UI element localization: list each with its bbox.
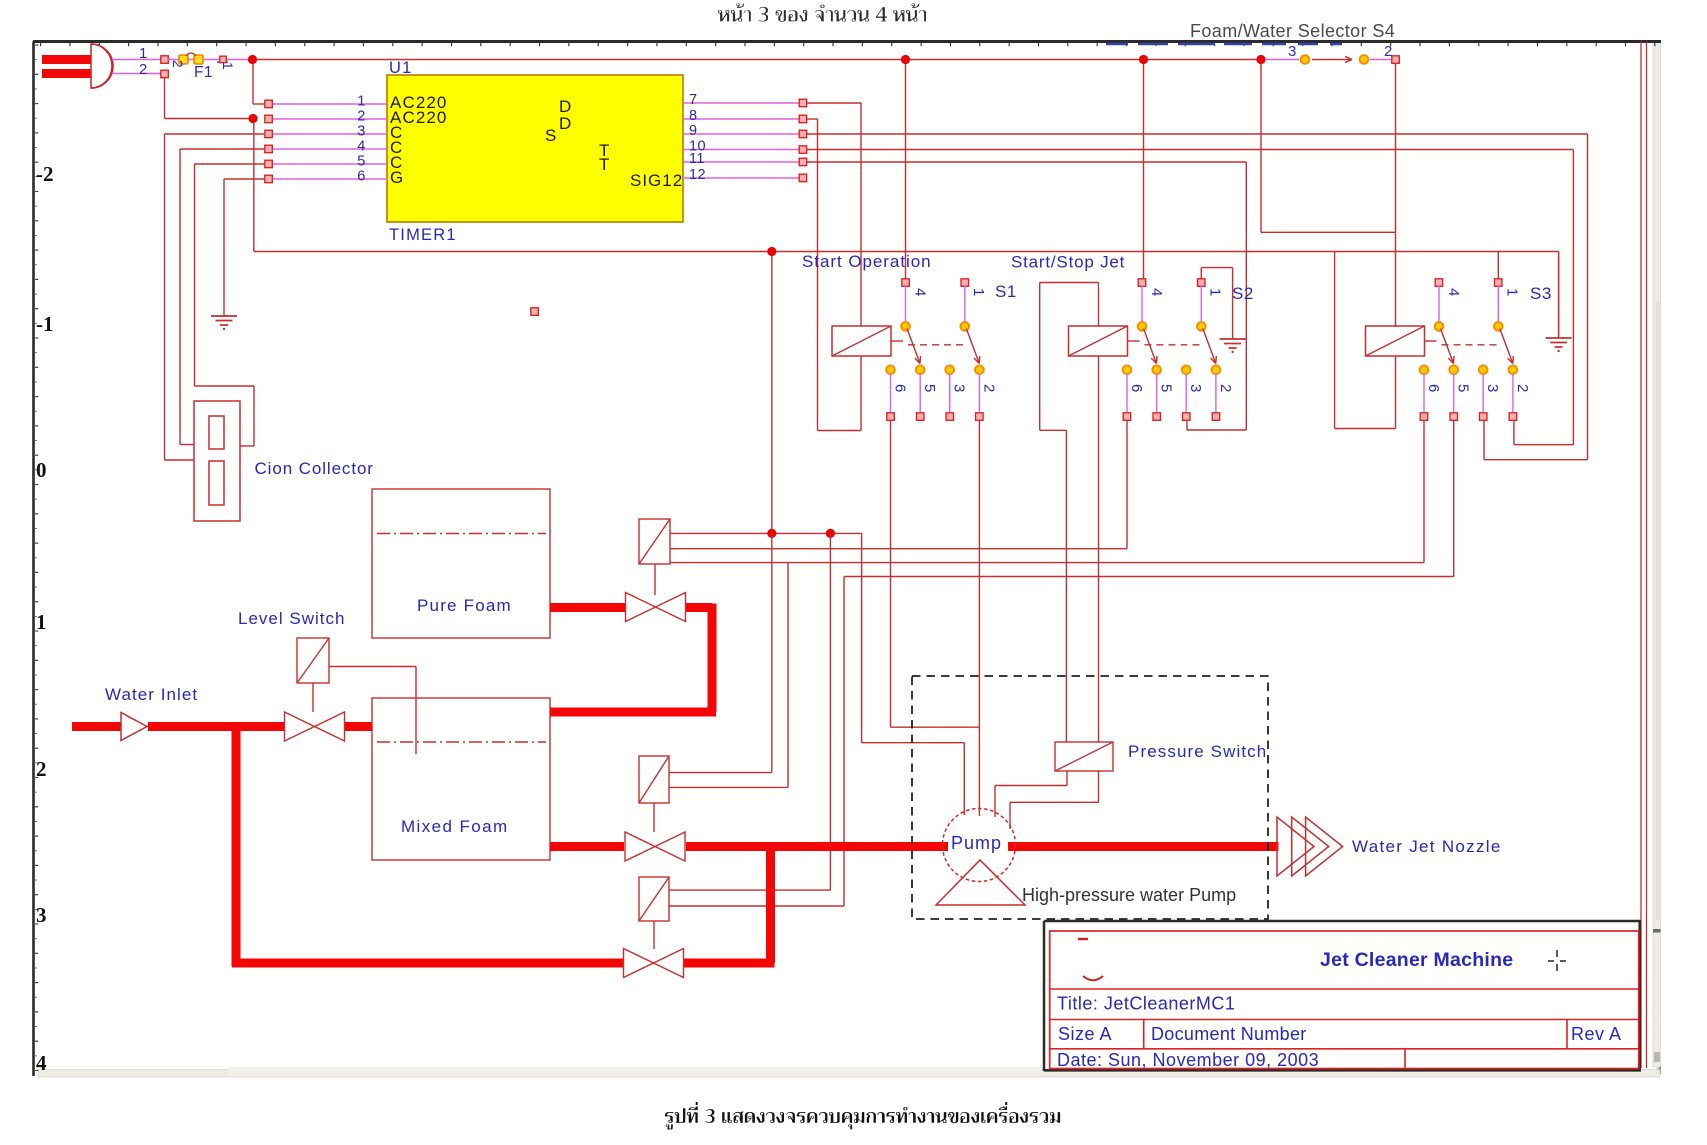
svg-text:S: S	[545, 126, 556, 145]
svg-text:S3: S3	[1530, 284, 1552, 303]
svg-text:D: D	[559, 114, 571, 133]
svg-text:High-pressure water Pump: High-pressure water Pump	[1022, 885, 1236, 905]
svg-text:4: 4	[1445, 288, 1462, 297]
svg-text:4: 4	[357, 139, 365, 155]
svg-text:1: 1	[1503, 288, 1520, 297]
svg-text:1: 1	[139, 45, 148, 62]
svg-text:4: 4	[912, 288, 929, 297]
svg-text:S1: S1	[995, 282, 1017, 301]
svg-text:3: 3	[1484, 384, 1501, 393]
svg-text:3: 3	[951, 384, 968, 393]
svg-text:2: 2	[36, 757, 47, 781]
svg-text:5: 5	[1158, 384, 1175, 393]
svg-text:Start/Stop Jet: Start/Stop Jet	[1011, 253, 1125, 272]
svg-text:6: 6	[357, 169, 365, 185]
svg-text:2: 2	[170, 60, 185, 68]
svg-text:G: G	[390, 168, 404, 187]
svg-text:Title: JetCleanerMC1: Title: JetCleanerMC1	[1057, 994, 1235, 1014]
svg-text:Rev A: Rev A	[1571, 1024, 1622, 1044]
svg-text:Level Switch: Level Switch	[238, 609, 345, 628]
svg-text:Document Number: Document Number	[1151, 1024, 1307, 1044]
svg-text:Start Operation: Start Operation	[802, 252, 932, 271]
svg-text:Jet Cleaner Machine: Jet Cleaner Machine	[1320, 949, 1513, 971]
svg-text:Water Inlet: Water Inlet	[105, 685, 198, 704]
svg-text:Foam/Water Selector S4: Foam/Water Selector S4	[1190, 21, 1395, 41]
svg-text:Pure Foam: Pure Foam	[417, 596, 512, 615]
svg-text:F1: F1	[194, 64, 213, 81]
svg-text:8: 8	[689, 108, 697, 124]
svg-text:11: 11	[689, 151, 705, 167]
svg-text:Water Jet Nozzle: Water Jet Nozzle	[1352, 837, 1502, 856]
svg-text:Date: Sun, November 09, 2003: Date: Sun, November 09, 2003	[1057, 1050, 1319, 1070]
svg-text:Cion Collector: Cion Collector	[255, 459, 374, 478]
svg-text:U1: U1	[389, 59, 413, 77]
svg-text:2: 2	[1514, 384, 1531, 393]
svg-text:TIMER1: TIMER1	[389, 226, 457, 244]
svg-text:SIG12: SIG12	[630, 171, 683, 190]
svg-text:4: 4	[1148, 288, 1165, 297]
svg-text:7: 7	[689, 92, 697, 108]
svg-text:1: 1	[36, 610, 47, 634]
svg-text:9: 9	[689, 123, 697, 139]
svg-text:6: 6	[892, 384, 909, 393]
svg-text:2: 2	[980, 384, 997, 393]
svg-text:6: 6	[1128, 384, 1145, 393]
svg-text:5: 5	[921, 384, 938, 393]
svg-text:2: 2	[139, 61, 148, 78]
svg-text:Pressure Switch: Pressure Switch	[1128, 742, 1267, 761]
svg-text:5: 5	[357, 154, 365, 170]
svg-text:3: 3	[36, 903, 47, 927]
svg-text:2: 2	[1384, 43, 1393, 60]
svg-text:2: 2	[1217, 384, 1234, 393]
svg-text:5: 5	[1455, 384, 1472, 393]
svg-text:T: T	[599, 155, 609, 174]
svg-text:3: 3	[1288, 43, 1297, 60]
svg-text:3: 3	[357, 124, 365, 140]
svg-text:S2: S2	[1232, 284, 1254, 303]
svg-text:-2: -2	[36, 162, 54, 186]
svg-text:1: 1	[357, 94, 365, 110]
svg-text:2: 2	[357, 109, 365, 125]
svg-text:Pump: Pump	[951, 833, 1002, 853]
svg-text:-1: -1	[36, 312, 54, 336]
svg-text:1: 1	[1206, 288, 1223, 297]
svg-text:Size A: Size A	[1058, 1024, 1112, 1044]
svg-text:12: 12	[689, 167, 706, 183]
svg-text:1: 1	[970, 288, 987, 297]
svg-text:4: 4	[36, 1051, 47, 1075]
svg-text:0: 0	[36, 458, 47, 482]
svg-text:Mixed Foam: Mixed Foam	[401, 817, 509, 836]
svg-text:6: 6	[1425, 384, 1442, 393]
svg-text:3: 3	[1187, 384, 1204, 393]
